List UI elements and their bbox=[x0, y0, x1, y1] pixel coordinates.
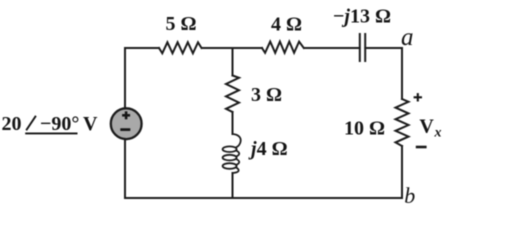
svg-text:a: a bbox=[401, 24, 414, 51]
svg-text:b: b bbox=[404, 183, 415, 208]
svg-text:10 Ω: 10 Ω bbox=[344, 118, 385, 140]
svg-text:4 Ω: 4 Ω bbox=[271, 14, 302, 36]
svg-text:−j13 Ω: −j13 Ω bbox=[333, 6, 391, 28]
svg-text:−90°: −90° bbox=[40, 113, 79, 135]
svg-text:j4 Ω: j4 Ω bbox=[248, 138, 288, 160]
svg-text:3 Ω: 3 Ω bbox=[251, 84, 282, 106]
svg-text:V: V bbox=[419, 116, 434, 138]
svg-text:5 Ω: 5 Ω bbox=[165, 13, 196, 35]
svg-text:20: 20 bbox=[2, 113, 22, 135]
svg-text:V: V bbox=[83, 113, 98, 135]
svg-text:x: x bbox=[434, 126, 442, 141]
